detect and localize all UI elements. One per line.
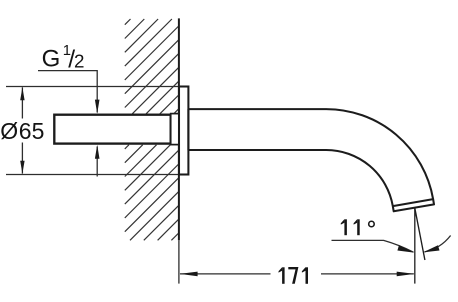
spout tip slanted flow line 11deg <box>415 208 425 260</box>
label 171 digit 1b <box>306 267 309 284</box>
G1/2 leader line <box>38 71 97 113</box>
label 11 digit 1b <box>357 219 360 235</box>
label 11 digit 1a <box>344 219 347 235</box>
dia65 dimension line lower segment <box>21 143 23 174</box>
svg-text:2: 2 <box>74 51 84 72</box>
svg-text:65: 65 <box>19 118 45 144</box>
11deg right arc <box>425 236 451 252</box>
dia65 dimension line upper segment <box>21 87 23 118</box>
dia65 arrow down <box>20 161 24 174</box>
shank rear collar stub <box>171 114 179 145</box>
label 171 digit 1 <box>282 267 285 284</box>
G1/2 arrow up to shank bottom <box>95 145 100 159</box>
wall hatch upper block <box>125 19 179 114</box>
label degree symbol <box>369 221 375 227</box>
dia65 arrow up <box>20 87 24 100</box>
spout tube outline <box>188 109 434 211</box>
aerator band inner line <box>393 199 433 206</box>
dia65 extension line bottom (flange bottom) <box>6 174 179 176</box>
wall extension line down to 171 dimension <box>178 240 180 283</box>
G1/2 lower arrow stem <box>96 147 98 177</box>
171 dimension line right segment <box>321 273 414 275</box>
171 arrow left <box>180 272 198 277</box>
171 dimension line left segment <box>180 273 271 275</box>
wall surface line <box>178 18 180 240</box>
11deg left arrow <box>397 245 414 253</box>
threaded shank G1/2 body <box>54 115 170 144</box>
171 arrow right <box>397 272 415 277</box>
label 171 digit 7 <box>288 267 298 284</box>
11deg leader line with arc <box>332 240 414 252</box>
wall hatch lower block <box>125 145 179 241</box>
wall flange escutcheon <box>179 87 188 175</box>
G1/2 arrow down to shank top <box>95 100 100 114</box>
svg-text:G: G <box>42 46 61 73</box>
dia65 extension line top (flange top) <box>6 86 179 88</box>
svg-text:Ø: Ø <box>0 118 18 144</box>
spout tip vertical reference line <box>414 208 416 284</box>
11deg right arrow <box>423 245 440 252</box>
